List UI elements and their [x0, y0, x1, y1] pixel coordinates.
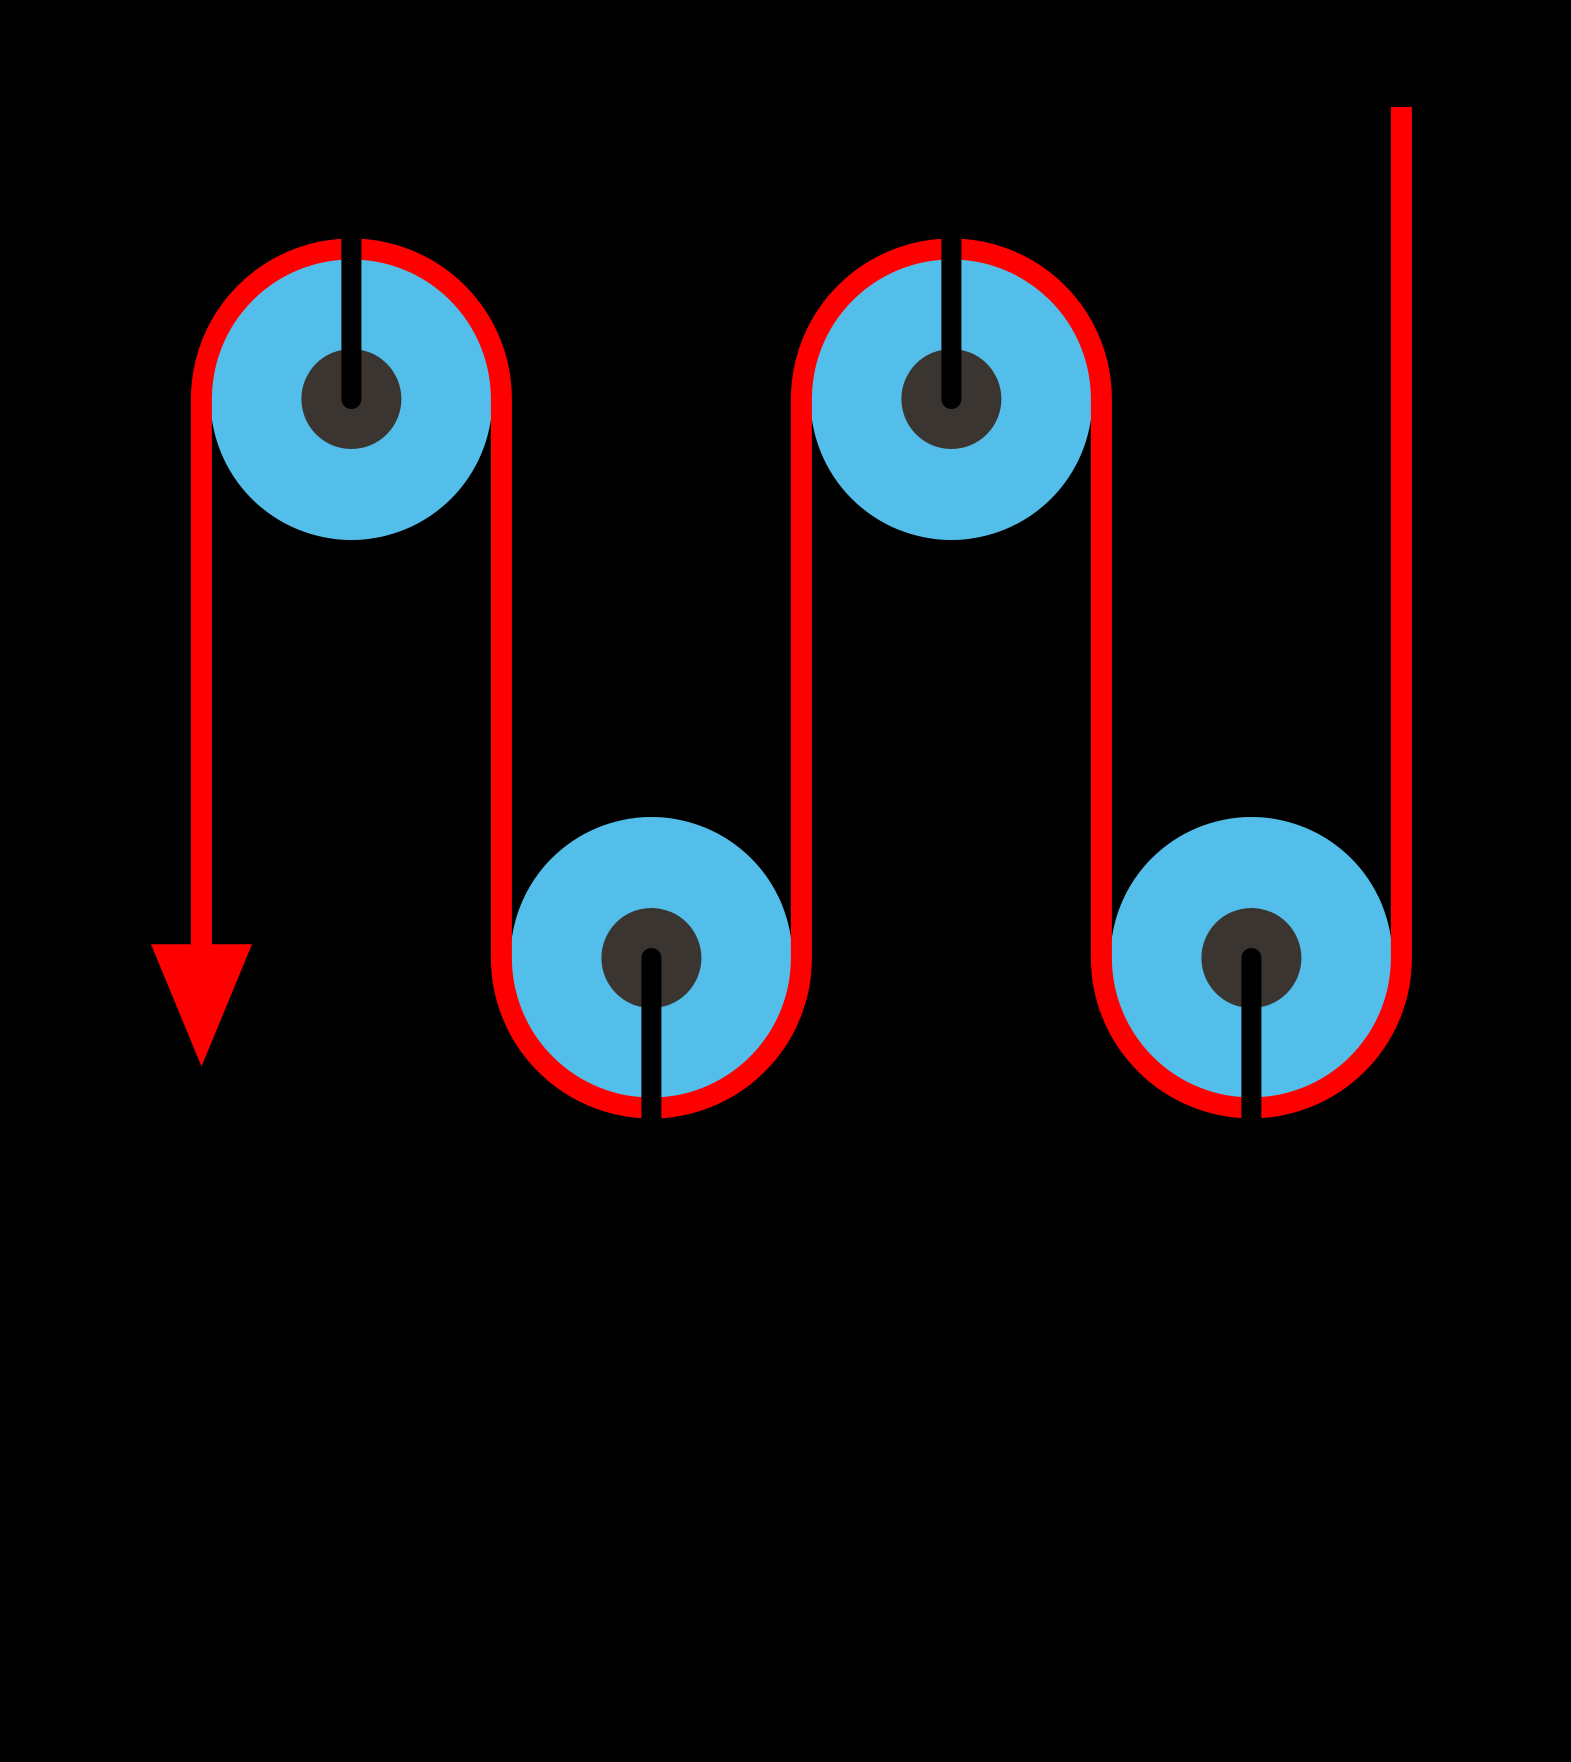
load rod of P4 (hangs below) [1241, 958, 1261, 1180]
pulley wheel P2 (bottom middle-left) [510, 817, 792, 1099]
support rod of P1 (hangs from above) [341, 160, 361, 399]
support rod of P3 (hangs from above) [941, 160, 961, 399]
axle of P1 [301, 349, 401, 449]
axle of P3 [901, 349, 1001, 449]
rope (red), threaded over P1, under P2, over P3, under P4 [201, 107, 1401, 1108]
arrow head on free rope end (pointing down) [151, 944, 252, 1066]
axle of P4 [1201, 908, 1301, 1008]
axle of P2 [601, 908, 701, 1008]
pulley wheel P1 (top left) [210, 258, 492, 540]
load rod of P2 (hangs below) [641, 958, 661, 1180]
pulley wheel P4 (bottom right) [1110, 817, 1392, 1099]
pulley wheel P3 (top middle-right) [810, 258, 1092, 540]
